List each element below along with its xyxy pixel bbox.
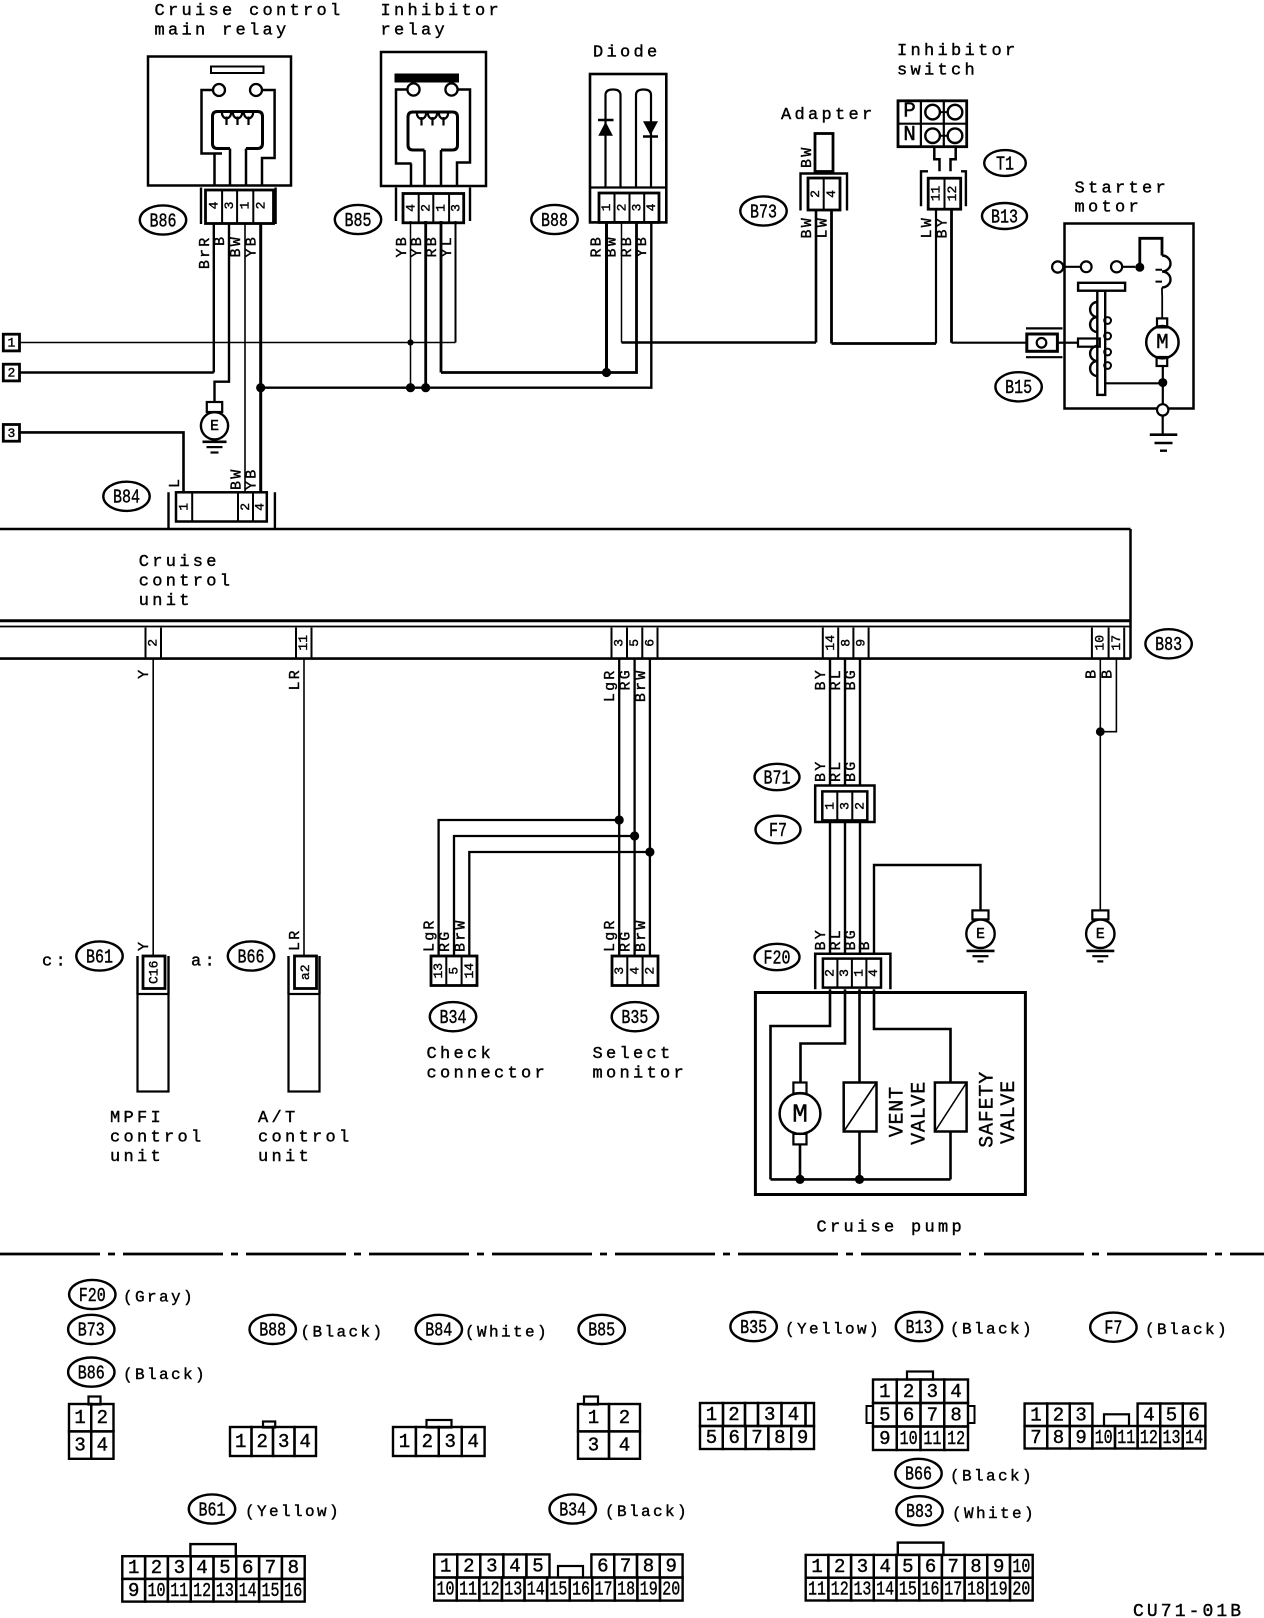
svg-text:4: 4 xyxy=(300,1431,311,1453)
svg-text:3: 3 xyxy=(612,639,627,647)
svg-text:2: 2 xyxy=(643,967,658,975)
diode pack inner shelf xyxy=(590,186,666,188)
svg-text:B85: B85 xyxy=(588,1320,615,1342)
relay B86 top bar xyxy=(211,67,264,74)
wire safety valve from F20 pin4 xyxy=(874,989,951,1082)
legend connector B84 pinout tab xyxy=(427,1420,452,1428)
relay B85 contact circle left xyxy=(407,83,419,95)
wire LR from unit pin11 to A/T xyxy=(303,658,305,956)
svg-text:1: 1 xyxy=(235,1431,246,1453)
svg-text:main relay: main relay xyxy=(155,22,290,41)
legend connector B34 pinout tab xyxy=(558,1566,583,1578)
svg-text:15: 15 xyxy=(262,1580,280,1602)
svg-text:relay: relay xyxy=(381,22,449,41)
svg-text:L: L xyxy=(167,477,184,488)
svg-text:18: 18 xyxy=(967,1579,985,1601)
svg-text:Inhibitor: Inhibitor xyxy=(897,42,1019,61)
cruise control unit pin strip bottom xyxy=(0,657,1131,660)
svg-text:6: 6 xyxy=(597,1555,608,1577)
svg-text:6: 6 xyxy=(925,1556,936,1578)
legend oval B86 xyxy=(68,1358,114,1387)
starter motor armature bottom terminal xyxy=(1157,357,1168,366)
oval B61 xyxy=(76,941,122,970)
relay B85 coil winding xyxy=(417,113,426,119)
inhibitor switch funnel xyxy=(934,147,939,172)
starter motor armature top terminal xyxy=(1157,318,1167,327)
svg-text:(Yellow): (Yellow) xyxy=(245,1503,341,1521)
svg-text:4: 4 xyxy=(1143,1404,1154,1426)
svg-text:3: 3 xyxy=(278,1431,289,1453)
svg-text:10: 10 xyxy=(1093,635,1108,651)
ground symbol E2 xyxy=(967,950,995,953)
wire diode pin2 BW down to BW bus xyxy=(621,222,623,342)
svg-text:3: 3 xyxy=(857,1556,868,1578)
legend oval F20 xyxy=(69,1280,115,1309)
starter motor box xyxy=(1065,224,1194,409)
inhibitor switch contact links xyxy=(940,112,948,136)
relay B86 yoke left foot xyxy=(213,154,216,187)
connector B35 cells xyxy=(612,956,658,986)
wire diode pin1 RB down xyxy=(605,222,608,372)
legend connector B85 pinout tab xyxy=(584,1397,598,1405)
starter motor plunger T bar xyxy=(1078,283,1125,291)
relay B85 yoke right xyxy=(457,90,470,188)
svg-text:1: 1 xyxy=(7,336,15,351)
svg-text:5: 5 xyxy=(1166,1404,1177,1426)
junction YB bus at B86 xyxy=(256,383,265,392)
wire BG B71 to F20 xyxy=(859,822,861,954)
wire BrW branch to check connector xyxy=(469,852,650,956)
wire stub3 L to connector B84 pin1 xyxy=(20,432,184,492)
inhibitor switch contacts P xyxy=(925,105,940,120)
svg-text:2: 2 xyxy=(823,969,838,977)
legend connector B73 pinout xyxy=(230,1427,252,1456)
svg-text:5: 5 xyxy=(447,967,462,975)
svg-text:7: 7 xyxy=(620,1555,631,1577)
connector B15 bracket bottom xyxy=(1026,356,1063,358)
svg-text:13: 13 xyxy=(504,1579,522,1601)
svg-text:12: 12 xyxy=(193,1580,211,1602)
svg-text:monitor: monitor xyxy=(593,1064,688,1083)
svg-text:1: 1 xyxy=(177,503,192,511)
svg-text:14: 14 xyxy=(876,1579,894,1601)
svg-text:1: 1 xyxy=(879,1381,890,1403)
svg-text:13: 13 xyxy=(216,1580,234,1602)
ground symbol (starter motor) xyxy=(1150,433,1178,436)
svg-text:4: 4 xyxy=(627,967,642,975)
connector B73 shell xyxy=(801,174,848,211)
svg-text:BW: BW xyxy=(799,146,816,168)
wire bus LW (adapter pin4 to inhibitor switch pin11) xyxy=(832,342,937,345)
wire B from unit pin17 xyxy=(1100,658,1116,732)
svg-text:B84: B84 xyxy=(425,1320,452,1342)
wire B85 pin2 YB down xyxy=(424,221,427,388)
connector stub 1 xyxy=(3,334,19,351)
svg-text:B83: B83 xyxy=(1155,634,1182,656)
starter motor terminal circle outside xyxy=(1052,261,1063,272)
svg-text:(Black): (Black) xyxy=(605,1503,689,1521)
legend connector F7 pinout xyxy=(1025,1404,1048,1427)
svg-text:M: M xyxy=(792,1100,808,1130)
ground E2 circle xyxy=(966,920,994,948)
wire B85 pin3 YL down to bus1 xyxy=(455,221,457,343)
legend oval B35 xyxy=(730,1312,776,1341)
svg-text:7: 7 xyxy=(927,1404,938,1426)
svg-text:3: 3 xyxy=(7,426,15,441)
svg-text:MPFI: MPFI xyxy=(110,1109,164,1128)
svg-text:3: 3 xyxy=(629,204,644,212)
legend connector B83 pinout tab xyxy=(898,1543,944,1555)
svg-text:VALVE: VALVE xyxy=(998,1080,1021,1144)
svg-text:13: 13 xyxy=(853,1579,871,1601)
diode D2 (points down) xyxy=(643,121,658,135)
svg-text:17: 17 xyxy=(944,1579,962,1601)
svg-text:switch: switch xyxy=(897,62,978,81)
svg-text:Y: Y xyxy=(136,668,153,679)
relay B85 contact circle right xyxy=(445,83,457,95)
pump motor top terminal xyxy=(793,1083,806,1094)
svg-text:F7: F7 xyxy=(769,820,787,842)
svg-text:Y: Y xyxy=(136,940,153,951)
connector F20 cells xyxy=(823,959,881,988)
wire pump ground bus xyxy=(771,1178,951,1181)
connector B85 shell xyxy=(396,188,470,222)
svg-text:16: 16 xyxy=(284,1580,302,1602)
relay B86 yoke right xyxy=(262,90,275,186)
svg-text:2: 2 xyxy=(7,366,15,381)
svg-text:19: 19 xyxy=(640,1579,658,1601)
svg-text:3: 3 xyxy=(837,969,852,977)
connector stub 3 xyxy=(3,425,19,442)
starter motor plunger stem xyxy=(1097,291,1105,395)
ground E1 terminal rect xyxy=(207,402,222,412)
svg-text:1: 1 xyxy=(440,1555,451,1577)
starter motor field winding tail xyxy=(1161,288,1163,319)
connector B73 cells xyxy=(808,178,840,210)
svg-text:Cruise pump: Cruise pump xyxy=(817,1219,966,1238)
legend oval B73 xyxy=(68,1315,114,1344)
svg-text:B84: B84 xyxy=(113,487,140,509)
svg-text:5: 5 xyxy=(627,639,642,647)
starter motor contact pad xyxy=(1078,339,1100,347)
oval B85 xyxy=(335,205,381,234)
svg-text:B85: B85 xyxy=(345,210,372,232)
svg-text:Starter: Starter xyxy=(1075,179,1170,198)
wire inhibitor pin11 LW down xyxy=(935,209,937,343)
svg-text:11: 11 xyxy=(1117,1427,1135,1449)
svg-text:10: 10 xyxy=(1012,1556,1030,1578)
diode channel right xyxy=(636,90,651,188)
ground symbol E3 xyxy=(1086,950,1114,953)
svg-text:LR: LR xyxy=(287,929,304,951)
svg-text:VENT: VENT xyxy=(887,1086,910,1137)
svg-text:2: 2 xyxy=(903,1381,914,1403)
ground symbol E1 xyxy=(203,440,227,443)
svg-text:BrW: BrW xyxy=(633,918,650,952)
connector B86 cell dividers xyxy=(222,190,253,224)
svg-text:16: 16 xyxy=(572,1579,590,1601)
svg-text:B34: B34 xyxy=(440,1007,467,1029)
svg-text:Adapter: Adapter xyxy=(781,106,876,125)
wire B from unit pin10 xyxy=(1099,658,1101,910)
oval B86 xyxy=(140,205,186,234)
wire bus BW (diode pin2 to adapter pin2) xyxy=(622,341,817,344)
svg-text:3: 3 xyxy=(764,1404,775,1426)
svg-text:(Black): (Black) xyxy=(950,1467,1034,1485)
wire pump motor bottom xyxy=(799,1144,802,1179)
svg-text:5: 5 xyxy=(706,1427,717,1449)
wire B86 pin2 YB down to B84 xyxy=(259,224,262,492)
svg-text:VALVE: VALVE xyxy=(909,1081,932,1145)
svg-text:control: control xyxy=(110,1128,205,1147)
svg-text:C16: C16 xyxy=(147,961,162,984)
oval B34 xyxy=(430,1002,476,1031)
svg-text:7: 7 xyxy=(265,1557,276,1579)
diode pack B88 body xyxy=(590,74,666,222)
inhibitor switch grid xyxy=(898,101,967,147)
svg-text:2: 2 xyxy=(419,204,434,212)
svg-text:8: 8 xyxy=(774,1427,785,1449)
connector B84 shell xyxy=(169,492,275,529)
svg-text:2: 2 xyxy=(151,1557,162,1579)
svg-text:2: 2 xyxy=(728,1404,739,1426)
svg-text:9: 9 xyxy=(854,639,869,647)
svg-text:(Yellow): (Yellow) xyxy=(785,1321,881,1339)
connector B84 cells xyxy=(176,492,267,521)
svg-text:9: 9 xyxy=(993,1556,1004,1578)
oval F7 xyxy=(756,816,801,844)
svg-text:2: 2 xyxy=(852,802,867,810)
cruise control unit pin strip top xyxy=(0,626,1131,628)
svg-text:6: 6 xyxy=(242,1557,253,1579)
pump motor bottom terminal xyxy=(793,1134,806,1145)
legend connector B86 pinout tab xyxy=(89,1397,101,1405)
svg-text:B66: B66 xyxy=(905,1464,932,1486)
ground E2 terminal rect xyxy=(972,910,988,919)
MPFI control unit body xyxy=(138,994,169,1092)
svg-text:19: 19 xyxy=(990,1579,1008,1601)
svg-text:1: 1 xyxy=(399,1431,410,1453)
svg-text:2: 2 xyxy=(1053,1404,1064,1426)
connector B66 a2 shell xyxy=(289,956,320,994)
wire B85 pin1 RB down xyxy=(440,221,443,373)
svg-text:B35: B35 xyxy=(621,1007,648,1029)
svg-text:1: 1 xyxy=(1030,1404,1041,1426)
svg-text:B: B xyxy=(857,939,874,950)
wire LgR from unit pin3 xyxy=(618,658,620,956)
connector B34 cells xyxy=(431,956,477,986)
connector B85 cell dividers xyxy=(419,194,449,223)
connector B15 stub to starter xyxy=(1057,342,1064,344)
connector T1 cells xyxy=(928,178,961,209)
wire pump motor negative from F20 pin2 xyxy=(771,989,831,1179)
svg-text:11: 11 xyxy=(296,635,311,651)
svg-text:(Black): (Black) xyxy=(1145,1321,1229,1339)
A/T control unit body xyxy=(289,994,320,1092)
relay B86 yoke left xyxy=(202,90,223,154)
wire B86 pin4 BrR down xyxy=(213,224,215,373)
svg-text:3: 3 xyxy=(445,1431,456,1453)
oval B71 xyxy=(755,764,800,790)
starter motor terminal circle C xyxy=(1111,261,1122,272)
svg-text:3: 3 xyxy=(74,1435,85,1457)
svg-text:14: 14 xyxy=(239,1580,257,1602)
pump motor M circle xyxy=(780,1093,821,1134)
svg-text:1: 1 xyxy=(852,969,867,977)
svg-text:Cruise control: Cruise control xyxy=(155,2,344,21)
svg-text:11: 11 xyxy=(170,1580,188,1602)
svg-text:(Black): (Black) xyxy=(301,1323,385,1341)
svg-text:SAFETY: SAFETY xyxy=(977,1071,1000,1148)
wire bus 2 (stub2 to B86 pin4 BrR) xyxy=(20,371,214,374)
svg-text:B86: B86 xyxy=(78,1362,105,1384)
wire BG from unit pin9 xyxy=(859,658,861,786)
svg-text:6: 6 xyxy=(728,1427,739,1449)
svg-text:12: 12 xyxy=(947,1428,965,1450)
diode channel left xyxy=(606,90,621,188)
svg-text:15: 15 xyxy=(549,1579,567,1601)
wire B85 pin4 YB down xyxy=(410,221,412,388)
oval B88 xyxy=(531,205,577,234)
starter motor ground wire xyxy=(1162,416,1164,435)
svg-text:5: 5 xyxy=(219,1557,230,1579)
svg-text:4: 4 xyxy=(879,1556,890,1578)
connector B66 a2 box xyxy=(295,956,317,989)
junction bus1/B85 pin4 xyxy=(407,339,413,345)
svg-text:1: 1 xyxy=(599,203,614,211)
svg-text:9: 9 xyxy=(665,1555,676,1577)
svg-text:7: 7 xyxy=(751,1427,762,1449)
oval B84 xyxy=(103,482,149,511)
oval B35 xyxy=(612,1002,658,1031)
svg-text:4: 4 xyxy=(866,969,881,977)
svg-text:unit: unit xyxy=(110,1148,164,1167)
legend oval B66 xyxy=(895,1459,941,1488)
svg-text:3: 3 xyxy=(927,1381,938,1403)
legend connector B61 pinout tab xyxy=(190,1544,235,1556)
legend connector B86 pinout xyxy=(69,1404,91,1431)
oval B13 xyxy=(982,203,1027,229)
wire RG from unit pin5 xyxy=(633,658,635,956)
svg-text:(White): (White) xyxy=(952,1505,1036,1523)
svg-text:1: 1 xyxy=(811,1556,822,1578)
svg-text:1: 1 xyxy=(822,802,837,810)
relay B86 contact circle left xyxy=(213,84,225,96)
svg-text:unit: unit xyxy=(139,592,193,611)
svg-text:2: 2 xyxy=(238,503,253,511)
svg-text:8: 8 xyxy=(288,1557,299,1579)
legend connector B13 pinout xyxy=(873,1380,897,1404)
svg-text:a2: a2 xyxy=(298,964,313,980)
legend connector B73 pinout tab xyxy=(263,1422,275,1428)
legend oval B13 xyxy=(896,1312,942,1341)
svg-text:8: 8 xyxy=(1053,1427,1064,1449)
connector B15 bracket top xyxy=(1026,327,1063,329)
svg-text:B66: B66 xyxy=(238,946,265,968)
legend oval B85 xyxy=(579,1315,625,1344)
svg-text:14: 14 xyxy=(1185,1427,1203,1449)
oval B73 xyxy=(740,196,786,225)
svg-text:5: 5 xyxy=(902,1556,913,1578)
wire Y from unit pin2 to MPFI xyxy=(152,658,154,956)
ground E3 terminal rect xyxy=(1092,910,1108,919)
connector B61 C16 shell xyxy=(138,956,169,994)
oval B66 xyxy=(228,941,274,970)
unit pin cell dividers xyxy=(145,628,147,658)
svg-text:6: 6 xyxy=(1188,1404,1199,1426)
svg-text:4: 4 xyxy=(788,1404,799,1426)
svg-text:BrW: BrW xyxy=(633,668,650,702)
oval T1 xyxy=(984,150,1026,176)
svg-text:11: 11 xyxy=(459,1579,477,1601)
svg-text:16: 16 xyxy=(922,1579,940,1601)
starter motor contact line from B15 xyxy=(1065,342,1079,344)
svg-text:4: 4 xyxy=(950,1381,961,1403)
wire RG branch to check connector xyxy=(454,836,635,956)
svg-text:12: 12 xyxy=(1140,1427,1158,1449)
connector B71/F7 shell xyxy=(815,786,874,823)
svg-text:6: 6 xyxy=(903,1404,914,1426)
legend oval B83 xyxy=(896,1496,942,1525)
svg-text:LR: LR xyxy=(287,668,304,690)
svg-text:motor: motor xyxy=(1075,199,1143,218)
svg-text:P: P xyxy=(903,100,916,123)
svg-text:7: 7 xyxy=(948,1556,959,1578)
svg-text:a:: a: xyxy=(191,952,218,971)
svg-text:2: 2 xyxy=(808,190,823,198)
svg-text:5: 5 xyxy=(879,1404,890,1426)
svg-text:3: 3 xyxy=(174,1557,185,1579)
starter motor bottom wire xyxy=(1162,366,1164,404)
starter motor plunger contact from junction xyxy=(1105,382,1163,384)
svg-text:3: 3 xyxy=(612,967,627,975)
svg-text:1: 1 xyxy=(434,204,449,212)
junction BrW tap xyxy=(645,847,654,856)
inhibitor switch contacts N xyxy=(925,128,940,143)
relay B85 armature xyxy=(408,112,458,150)
legend connector F7 pinout tab xyxy=(1104,1414,1129,1426)
svg-text:9: 9 xyxy=(879,1428,890,1450)
cruise control unit bottom edge xyxy=(0,619,1131,622)
legend connector B84 pinout xyxy=(393,1427,416,1456)
svg-text:8: 8 xyxy=(643,1555,654,1577)
junction YB bus / B85 pin2 xyxy=(421,383,430,392)
svg-text:4: 4 xyxy=(644,203,659,211)
starter motor field winding feed xyxy=(1140,238,1162,267)
svg-text:BW: BW xyxy=(228,235,245,257)
svg-text:E: E xyxy=(1096,926,1105,943)
svg-text:B61: B61 xyxy=(86,946,113,968)
wire BY from unit pin14 xyxy=(829,658,831,786)
wire vent valve from F20 pin1 xyxy=(858,989,861,1082)
svg-text:YB: YB xyxy=(244,235,261,257)
legend connector B85 pinout xyxy=(578,1404,609,1431)
svg-text:(Black): (Black) xyxy=(950,1321,1034,1339)
svg-text:B73: B73 xyxy=(78,1320,105,1342)
svg-text:5: 5 xyxy=(532,1555,543,1577)
oval B83 xyxy=(1145,629,1191,658)
svg-text:18: 18 xyxy=(617,1579,635,1601)
relay B85 armature stem xyxy=(425,150,442,187)
svg-text:B73: B73 xyxy=(750,201,777,223)
relay B86 armature xyxy=(213,112,263,149)
svg-text:Cruise: Cruise xyxy=(139,553,220,572)
svg-text:B83: B83 xyxy=(906,1501,933,1523)
junction YB bus / B85 pin4 xyxy=(406,383,415,392)
svg-text:3: 3 xyxy=(222,202,237,210)
connector F20 shell xyxy=(815,954,890,989)
safety valve symbol xyxy=(935,1083,967,1132)
